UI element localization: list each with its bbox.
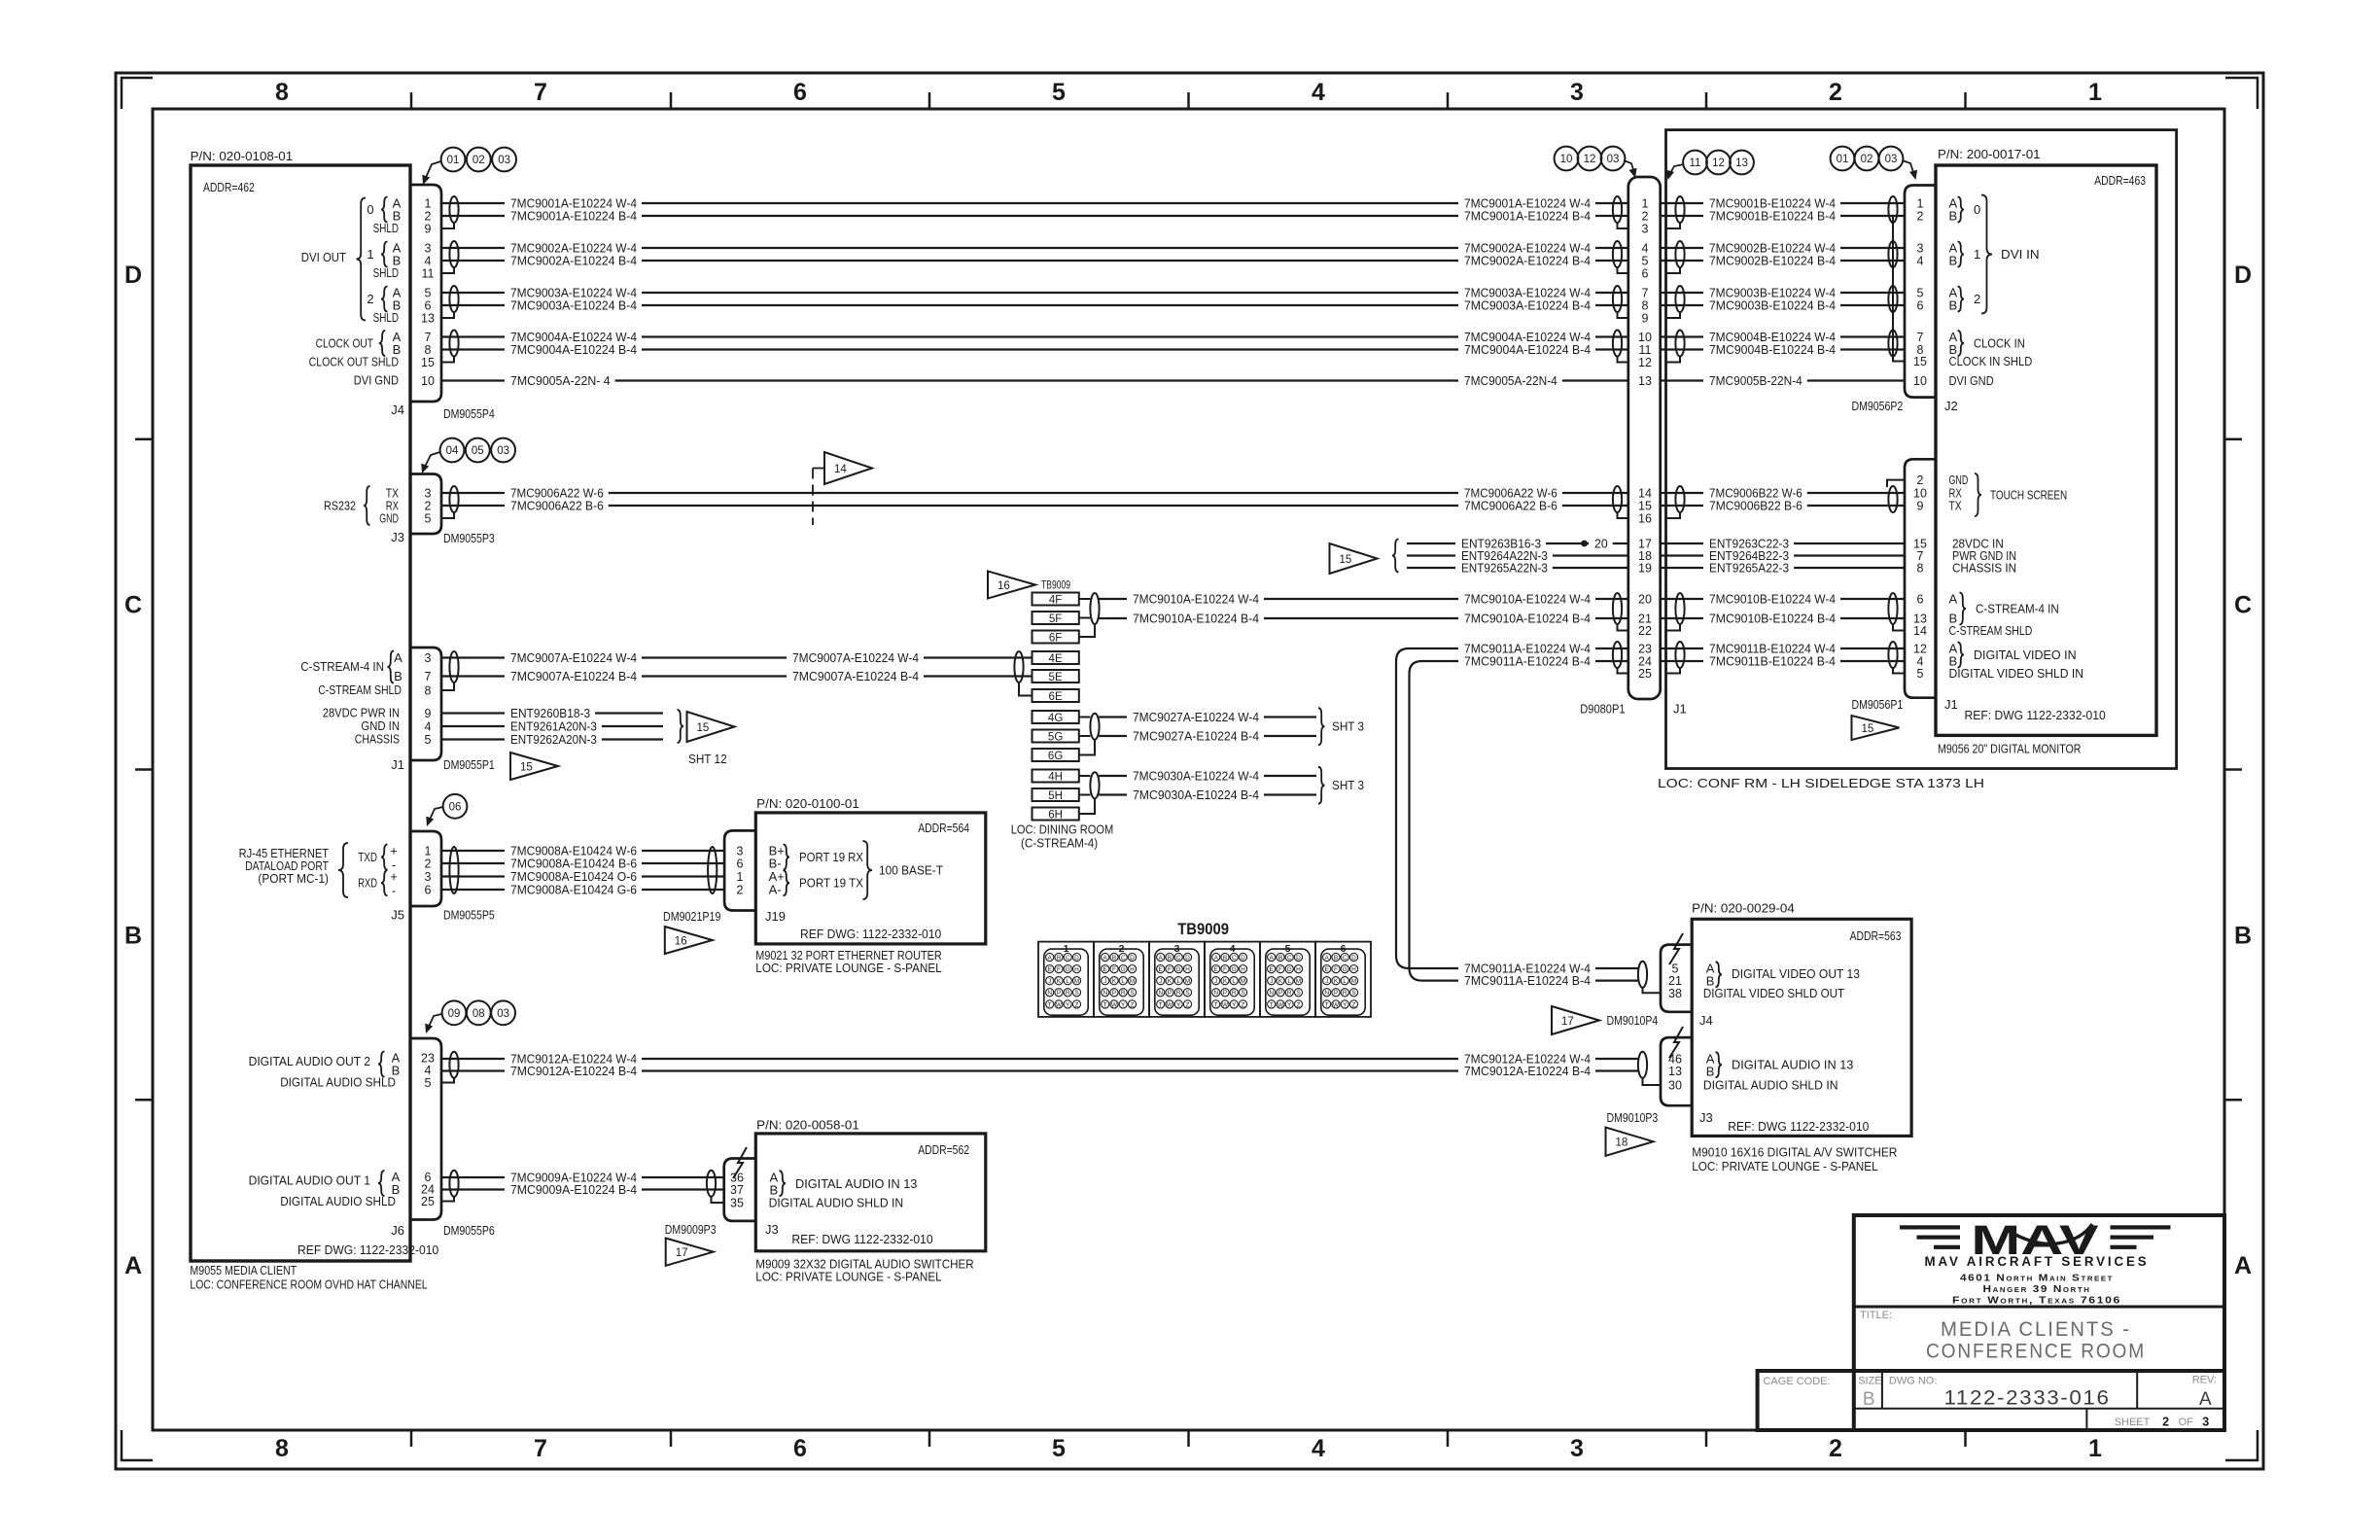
- svg-text:C-STREAM-4 IN: C-STREAM-4 IN: [300, 659, 384, 674]
- shield stub C-stream at D9080P1: [1618, 624, 1628, 631]
- svg-text:B: B: [1112, 955, 1116, 962]
- svg-text:2: 2: [1917, 473, 1924, 487]
- svg-text:ENT9262A20N-3: ENT9262A20N-3: [510, 732, 597, 747]
- svg-text:35: 35: [730, 1197, 744, 1210]
- svg-text:LOC: PRIVATE LOUNGE - S-PANEL: LOC: PRIVATE LOUNGE - S-PANEL: [1692, 1159, 1877, 1173]
- shield stub 6G: [1079, 740, 1095, 755]
- svg-text:6F: 6F: [1049, 632, 1062, 644]
- svg-text:7MC9010A-E10224 B-4: 7MC9010A-E10224 B-4: [1133, 612, 1259, 626]
- svg-text:G: G: [1232, 966, 1237, 973]
- wire 7MC9001B-E10224 B-4: [1661, 215, 1703, 217]
- svg-text:CLOCK IN: CLOCK IN: [1974, 336, 2025, 351]
- svg-text:5: 5: [425, 1076, 432, 1090]
- corner tick bottom-left: [122, 1430, 153, 1460]
- svg-text:C: C: [2234, 592, 2252, 619]
- svg-text:17: 17: [676, 1247, 688, 1259]
- svg-text:25: 25: [421, 1195, 435, 1208]
- TB9009 module 3: [1149, 942, 1205, 1017]
- svg-text:A: A: [1214, 955, 1219, 962]
- svg-text:DIGITAL AUDIO SHLD IN: DIGITAL AUDIO SHLD IN: [1703, 1078, 1838, 1093]
- svg-text:8: 8: [1917, 562, 1924, 576]
- svg-text:7MC9012A-E10224 B-4: 7MC9012A-E10224 B-4: [1464, 1064, 1591, 1078]
- svg-text:DIGITAL AUDIO IN 13: DIGITAL AUDIO IN 13: [1732, 1058, 1853, 1072]
- wire ENT9264B22-3: [1661, 554, 1703, 556]
- sheet-ref triangle 14 with dashed tap: [824, 452, 872, 484]
- svg-text:C: C: [1121, 955, 1126, 962]
- svg-text:A: A: [1270, 955, 1275, 962]
- reference circles 11 12 13 for J1: [1683, 151, 1707, 175]
- wire 7MC9006A22 B-6: [441, 505, 505, 507]
- svg-text:P: P: [1057, 990, 1061, 997]
- svg-text:DM9009P3: DM9009P3: [665, 1222, 717, 1237]
- svg-text:J: J: [1159, 978, 1162, 985]
- svg-text:W: W: [1277, 1001, 1284, 1008]
- svg-text:B: B: [1949, 298, 1958, 313]
- svg-text:D: D: [124, 262, 142, 289]
- svg-text:P: P: [1168, 990, 1172, 997]
- reference circles 01 02 03 for DM9056P2: [1831, 147, 1855, 171]
- svg-text:MAV AIRCRAFT SERVICES: MAV AIRCRAFT SERVICES: [1925, 1253, 2150, 1269]
- svg-text:0: 0: [367, 202, 373, 217]
- svg-text:L: L: [1121, 978, 1125, 985]
- svg-text:M: M: [1185, 978, 1190, 985]
- wire ENT9264A22N-3: [1407, 554, 1455, 556]
- svg-text:7MC9002A-E10224 B-4: 7MC9002A-E10224 B-4: [510, 254, 637, 268]
- svg-text:DIGITAL AUDIO OUT 2: DIGITAL AUDIO OUT 2: [249, 1054, 370, 1068]
- svg-text:ENT9265A22-3: ENT9265A22-3: [1709, 561, 1789, 576]
- svg-text:SHLD: SHLD: [373, 310, 399, 325]
- sheet-ref triangle 15 below DM9056P1: [1852, 716, 1900, 740]
- shielded pair symbol audio2 at J6: [449, 1052, 458, 1078]
- shielded pair symbols: [449, 241, 458, 267]
- svg-text:G: G: [1343, 966, 1347, 973]
- svg-text:R: R: [1121, 990, 1126, 997]
- svg-text:REV:: REV:: [2192, 1375, 2217, 1386]
- wire 7MC9003B-E10224 B-4: [1661, 304, 1703, 306]
- svg-text:K: K: [1057, 978, 1062, 985]
- svg-text:TOUCH SCREEN: TOUCH SCREEN: [1990, 488, 2067, 503]
- svg-text:(C-STREAM-4): (C-STREAM-4): [1021, 836, 1098, 851]
- svg-text:7MC9005A-22N- 4: 7MC9005A-22N- 4: [510, 373, 611, 388]
- shielded pair symbol dig video left: [1613, 642, 1622, 668]
- svg-text:A: A: [2199, 1389, 2212, 1410]
- TB9009 module 6: [1315, 942, 1371, 1017]
- svg-text:03: 03: [497, 1008, 509, 1020]
- sheet-ref triangle 16 below DM9021P19: [665, 927, 713, 954]
- svg-text:DIGITAL VIDEO IN: DIGITAL VIDEO IN: [1974, 647, 2077, 662]
- svg-text:7MC9011A-E10224 B-4: 7MC9011A-E10224 B-4: [1464, 654, 1591, 669]
- svg-text:5: 5: [1917, 667, 1924, 681]
- svg-text:SHT 12: SHT 12: [688, 752, 727, 766]
- wire 7MC9002B-E10224 W-4: [1661, 247, 1703, 249]
- svg-text:M9056 20" DIGITAL MONITOR: M9056 20" DIGITAL MONITOR: [1938, 742, 2082, 756]
- svg-text:REF DWG: 1122-2332-010: REF DWG: 1122-2332-010: [297, 1242, 438, 1257]
- reference circles 10 12 03 for D9080P1: [1555, 147, 1579, 171]
- svg-text:6: 6: [793, 79, 807, 106]
- wire 7MC9009A-E10224 W-4: [441, 1176, 505, 1178]
- connector J6 (DM9055P6): [410, 1038, 441, 1220]
- svg-text:LOC: CONFERENCE ROOM OVHD HAT: LOC: CONFERENCE ROOM OVHD HAT CHANNEL: [190, 1277, 427, 1292]
- svg-text:37: 37: [730, 1183, 744, 1197]
- svg-text:2: 2: [1917, 210, 1924, 224]
- terminal 4G: [1032, 711, 1079, 723]
- svg-text:DM9055P4: DM9055P4: [443, 406, 495, 421]
- svg-text:15: 15: [1862, 723, 1874, 735]
- sheet-ref triangle 17 below DM9009P3: [666, 1239, 714, 1266]
- svg-text:C-STREAM-4 IN: C-STREAM-4 IN: [1976, 602, 2059, 616]
- svg-text:J1: J1: [391, 757, 404, 772]
- svg-text:E: E: [1103, 966, 1108, 973]
- svg-text:7MC9010A-E10224 W-4: 7MC9010A-E10224 W-4: [1464, 592, 1591, 607]
- svg-text:1: 1: [425, 197, 432, 211]
- svg-text:C-STREAM SHLD: C-STREAM SHLD: [1949, 623, 2033, 638]
- svg-text:T: T: [1325, 1001, 1329, 1008]
- svg-text:15: 15: [421, 356, 435, 369]
- svg-text:Z: Z: [1075, 1001, 1079, 1008]
- svg-text:P/N: 200-0017-01: P/N: 200-0017-01: [1938, 147, 2041, 161]
- wire ENT9262A20N-3: [441, 738, 505, 740]
- reference circles 01 02 03 for J4: [441, 148, 466, 172]
- svg-text:D: D: [2234, 262, 2252, 289]
- terminal 5H wire stub: [1079, 794, 1091, 796]
- svg-text:D: D: [1074, 955, 1079, 962]
- svg-text:TXD: TXD: [358, 850, 377, 864]
- svg-text:12: 12: [1638, 356, 1652, 369]
- svg-text:6H: 6H: [1048, 809, 1063, 821]
- svg-text:DWG NO:: DWG NO:: [1889, 1376, 1938, 1387]
- svg-text:J3: J3: [391, 530, 404, 544]
- wire 7MC9006B22 W-6: [1661, 492, 1703, 494]
- shielded pair symbols C-stream right: [1675, 593, 1684, 624]
- shield stub at M9055: [441, 267, 454, 273]
- svg-text:16: 16: [675, 936, 687, 948]
- svg-text:20: 20: [1638, 593, 1652, 607]
- svg-text:E: E: [1214, 966, 1219, 973]
- svg-text:Hanger 39 North: Hanger 39 North: [1983, 1283, 2091, 1295]
- shield stub monitor dig video: [1893, 668, 1905, 674]
- svg-text:13: 13: [1735, 157, 1748, 169]
- svg-text:7MC9002A-E10224 B-4: 7MC9002A-E10224 B-4: [1464, 254, 1591, 268]
- shielded pair symbol 9030: [1090, 772, 1099, 798]
- svg-text:L: L: [1343, 978, 1347, 985]
- M9009 audio switcher box: [755, 1134, 986, 1251]
- wire 7MC9006A22 W-6: [441, 492, 505, 494]
- terminal 6F: [1032, 631, 1079, 644]
- svg-text:1: 1: [1974, 247, 1980, 262]
- shielded pair symbols C-stream left: [1090, 593, 1099, 624]
- svg-text:5: 5: [425, 287, 432, 300]
- svg-text:DM9056P2: DM9056P2: [1852, 399, 1904, 413]
- svg-text:B: B: [1863, 1389, 1875, 1410]
- shielded pair symbol at M9010 J4: [1638, 962, 1647, 988]
- svg-text:1: 1: [367, 247, 373, 262]
- svg-text:4: 4: [425, 720, 432, 734]
- svg-text:TX: TX: [1949, 499, 1962, 513]
- svg-text:A: A: [1048, 955, 1053, 962]
- svg-text:M: M: [1074, 978, 1079, 985]
- svg-text:03: 03: [497, 445, 509, 457]
- svg-text:5: 5: [425, 733, 432, 747]
- svg-text:7MC9003B-E10224 B-4: 7MC9003B-E10224 B-4: [1709, 298, 1836, 313]
- svg-text:10: 10: [421, 374, 435, 388]
- shield break symbol M9010 J3: [1669, 1027, 1683, 1058]
- svg-text:DM9010P4: DM9010P4: [1607, 1013, 1659, 1028]
- svg-text:REF: DWG 1122-2332-010: REF: DWG 1122-2332-010: [1728, 1119, 1869, 1134]
- svg-text:4H: 4H: [1048, 771, 1063, 783]
- svg-text:1: 1: [737, 870, 744, 884]
- svg-text:DVI GND: DVI GND: [1949, 373, 1994, 388]
- terminal 5G wire stub: [1079, 735, 1091, 737]
- svg-text:REF: DWG 1122-2332-010: REF: DWG 1122-2332-010: [791, 1232, 932, 1246]
- wire 7MC9011B-E10224 W-4: [1661, 647, 1703, 649]
- shielded pair symbol 9027: [1090, 714, 1099, 740]
- svg-text:R: R: [1232, 990, 1237, 997]
- svg-text:(PORT MC-1): (PORT MC-1): [258, 871, 329, 886]
- svg-text:RS232: RS232: [324, 499, 356, 513]
- svg-text:1: 1: [2088, 1435, 2102, 1462]
- svg-text:2: 2: [425, 500, 432, 513]
- svg-text:J19: J19: [765, 909, 786, 924]
- wire 7MC9004A-E10224 W-4: [441, 335, 505, 337]
- svg-text:H: H: [1351, 966, 1356, 973]
- svg-text:L: L: [1176, 978, 1180, 985]
- svg-text:DM9055P6: DM9055P6: [443, 1223, 495, 1238]
- svg-text:6: 6: [1917, 299, 1924, 313]
- svg-text:CLOCK OUT SHLD: CLOCK OUT SHLD: [309, 355, 399, 369]
- corner tick bottom-right: [2225, 1430, 2257, 1460]
- wire 7MC9003A-E10224 W-4: [441, 292, 505, 294]
- svg-text:10: 10: [1913, 374, 1927, 388]
- svg-text:P: P: [1112, 990, 1116, 997]
- svg-text:SIZE: SIZE: [1858, 1376, 1881, 1387]
- svg-text:5: 5: [1917, 287, 1924, 300]
- connector J4 (DM9055P4): [410, 185, 441, 402]
- svg-text:B: B: [394, 669, 402, 683]
- corner tick top-left: [122, 78, 153, 109]
- svg-text:4E: 4E: [1049, 653, 1063, 665]
- svg-text:LOC: PRIVATE LOUNGE - S-PANEL: LOC: PRIVATE LOUNGE - S-PANEL: [755, 1270, 941, 1284]
- shield stub at M9055: [441, 312, 454, 318]
- terminal 4E: [1032, 651, 1079, 664]
- svg-text:17: 17: [1561, 1016, 1574, 1028]
- svg-text:7MC9003A-E10224 B-4: 7MC9003A-E10224 B-4: [510, 298, 637, 313]
- shield stub at M9009: [712, 1197, 724, 1203]
- svg-text:Z: Z: [1242, 1001, 1245, 1008]
- svg-text:13: 13: [1638, 374, 1652, 388]
- svg-text:25: 25: [1638, 667, 1652, 681]
- svg-text:7MC9009A-E10224 B-4: 7MC9009A-E10224 B-4: [510, 1182, 637, 1197]
- MAV logo wing bars left: [1900, 1225, 1960, 1229]
- shield stub 9007 at M9055: [441, 682, 454, 690]
- terminal 6E: [1032, 689, 1079, 702]
- svg-text:DIGITAL VIDEO OUT 13: DIGITAL VIDEO OUT 13: [1732, 966, 1860, 981]
- svg-text:2: 2: [425, 857, 432, 871]
- svg-text:T: T: [1103, 1001, 1107, 1008]
- svg-text:4: 4: [1312, 79, 1325, 106]
- svg-text:4F: 4F: [1049, 594, 1062, 606]
- svg-text:8: 8: [275, 79, 289, 106]
- svg-text:B: B: [1168, 955, 1172, 962]
- svg-text:7MC9012A-E10224 B-4: 7MC9012A-E10224 B-4: [510, 1064, 637, 1078]
- svg-text:06: 06: [449, 802, 462, 814]
- svg-text:A: A: [1103, 955, 1108, 962]
- svg-text:15: 15: [1913, 355, 1927, 368]
- svg-text:2: 2: [425, 210, 432, 224]
- svg-text:7MC9010B-E10224 B-4: 7MC9010B-E10224 B-4: [1709, 612, 1836, 626]
- svg-text:H: H: [1130, 966, 1135, 973]
- svg-text:S: S: [1351, 990, 1356, 997]
- svg-text:Y: Y: [1343, 1001, 1347, 1008]
- svg-text:J: J: [1214, 978, 1217, 985]
- svg-text:+: +: [390, 844, 398, 858]
- svg-text:T: T: [1270, 1001, 1274, 1008]
- svg-text:02: 02: [472, 155, 485, 166]
- power wires brace: [1392, 540, 1399, 573]
- svg-text:W: W: [1222, 1001, 1229, 1008]
- shield stub at D9080P1 left: [1618, 357, 1628, 363]
- sheet-ref triangle 15 at DM9055P1: [510, 752, 558, 780]
- wire 7MC9002A-E10224 W-4: [441, 247, 505, 249]
- svg-text:P: P: [1223, 990, 1227, 997]
- terminal 6H: [1032, 808, 1079, 821]
- wire 7MC9008A-E10424 G-6: [441, 889, 505, 891]
- TB9009 module 1: [1038, 942, 1094, 1017]
- svg-text:LOC: PRIVATE LOUNGE - S-PANEL: LOC: PRIVATE LOUNGE - S-PANEL: [755, 961, 941, 975]
- connector J1 (DM9055P1): [410, 647, 441, 760]
- svg-text:DIGITAL AUDIO SHLD: DIGITAL AUDIO SHLD: [280, 1075, 396, 1090]
- svg-text:4: 4: [425, 255, 432, 268]
- svg-text:W: W: [1167, 1001, 1173, 1008]
- svg-text:Y: Y: [1121, 1001, 1126, 1008]
- wire 7MC9027A-E10224 W-4: [1099, 716, 1127, 717]
- svg-text:J3: J3: [765, 1222, 779, 1237]
- wire 7MC9010A-E10224 W-4: [1099, 598, 1127, 600]
- svg-text:4: 4: [1642, 242, 1649, 256]
- svg-text:M: M: [1296, 978, 1301, 985]
- svg-text:TB9009: TB9009: [1041, 580, 1070, 592]
- svg-text:14: 14: [1638, 487, 1652, 501]
- svg-text:7MC9010A-E10224 W-4: 7MC9010A-E10224 W-4: [1133, 592, 1259, 607]
- svg-text:7MC9027A-E10224 W-4: 7MC9027A-E10224 W-4: [1133, 710, 1259, 724]
- svg-text:F: F: [1168, 966, 1172, 973]
- svg-text:7: 7: [1642, 287, 1649, 300]
- svg-text:A: A: [1325, 955, 1330, 962]
- svg-text:0: 0: [1974, 202, 1980, 217]
- svg-text:J: J: [1325, 978, 1328, 985]
- shield oval at J5: [449, 847, 458, 893]
- svg-text:ADDR=563: ADDR=563: [1850, 928, 1902, 943]
- svg-text:03: 03: [1885, 154, 1898, 165]
- svg-text:C: C: [1176, 955, 1181, 962]
- svg-text:1: 1: [1917, 197, 1924, 211]
- terminal 4H: [1032, 770, 1079, 783]
- shield stub at M9055: [441, 223, 454, 228]
- svg-text:F: F: [1057, 966, 1061, 973]
- shielded pair symbol audio1 at J6: [449, 1171, 458, 1197]
- monitor J2 shield chain to pin 15: [1893, 217, 1905, 362]
- connector J5 (DM9055P5): [410, 831, 441, 906]
- svg-text:7MC9001B-E10224 B-4: 7MC9001B-E10224 B-4: [1709, 209, 1836, 224]
- svg-text:H: H: [1074, 966, 1079, 973]
- svg-text:K: K: [1334, 978, 1339, 985]
- svg-text:13: 13: [1668, 1065, 1682, 1078]
- svg-text:Z: Z: [1352, 1001, 1356, 1008]
- leader to DM9056P2: [1903, 160, 1915, 175]
- svg-text:5: 5: [1642, 255, 1649, 268]
- shielded pair symbols dig video right: [1675, 642, 1684, 668]
- wire 7MC9005A-22N-4 (DVI GND): [441, 379, 505, 381]
- svg-text:ADDR=564: ADDR=564: [918, 821, 969, 835]
- svg-text:OF: OF: [2179, 1417, 2194, 1428]
- reference circles 04 05 03 for J3: [440, 438, 465, 463]
- svg-text:4: 4: [425, 1064, 432, 1077]
- svg-text:7MC9001A-E10224 B-4: 7MC9001A-E10224 B-4: [510, 209, 637, 224]
- svg-text:L: L: [1066, 978, 1069, 985]
- svg-text:3: 3: [2202, 1416, 2209, 1429]
- svg-text:7MC9002B-E10224 B-4: 7MC9002B-E10224 B-4: [1709, 254, 1836, 268]
- svg-text:8: 8: [1642, 299, 1649, 313]
- svg-text:7MC9011A-E10224 B-4: 7MC9011A-E10224 B-4: [1464, 973, 1591, 988]
- MAV logo swoosh: [2007, 1224, 2092, 1243]
- svg-text:J1: J1: [1944, 697, 1958, 712]
- svg-text:S: S: [1130, 990, 1135, 997]
- power wires closing brace: [678, 710, 684, 743]
- svg-text:G: G: [1287, 966, 1292, 973]
- shield stub 6H: [1079, 799, 1095, 815]
- svg-text:Y: Y: [1232, 1001, 1237, 1008]
- svg-text:DM9055P1: DM9055P1: [443, 757, 495, 772]
- svg-text:W: W: [1333, 1001, 1340, 1008]
- svg-text:1: 1: [2088, 79, 2102, 106]
- wire ENT9265A22N-3: [1407, 567, 1455, 569]
- svg-text:J5: J5: [391, 908, 404, 923]
- wire 7MC9006B22 B-6: [1661, 505, 1703, 507]
- svg-text:14: 14: [834, 464, 847, 475]
- svg-text:SHT 3: SHT 3: [1332, 778, 1364, 792]
- shielded pair symbol at M9009: [707, 1171, 716, 1197]
- wire 7MC9009A-E10224 B-4: [441, 1188, 505, 1190]
- svg-text:4601 North Main Street: 4601 North Main Street: [1960, 1273, 2114, 1284]
- svg-text:A-: A-: [769, 883, 782, 897]
- svg-text:7MC9027A-E10224 B-4: 7MC9027A-E10224 B-4: [1133, 729, 1259, 744]
- svg-text:6: 6: [1642, 267, 1649, 281]
- svg-text:F: F: [1223, 966, 1227, 973]
- svg-text:8: 8: [425, 684, 432, 698]
- svg-text:D: D: [1130, 955, 1135, 962]
- svg-text:CHASSIS IN: CHASSIS IN: [1952, 561, 2016, 576]
- shielded pair symbols: [449, 286, 458, 312]
- SHT 3 brace for 9027: [1318, 708, 1325, 745]
- svg-text:30: 30: [1668, 1079, 1682, 1093]
- svg-text:A: A: [124, 1252, 142, 1279]
- svg-text:ADDR=463: ADDR=463: [2094, 173, 2146, 188]
- shielded pair symbols: [449, 196, 458, 223]
- svg-text:7: 7: [534, 79, 547, 106]
- terminal 5F wire stub: [1079, 617, 1091, 619]
- svg-text:SHLD: SHLD: [373, 265, 399, 280]
- wire ENT9261A20N-3: [441, 725, 505, 727]
- M9021 ethernet router box: [755, 813, 986, 944]
- terminal 4F: [1032, 593, 1079, 606]
- DVI IN group brace and label: [1981, 195, 1992, 314]
- svg-text:PORT 19 RX: PORT 19 RX: [799, 850, 863, 864]
- wire ENT9265A22-3: [1661, 567, 1703, 569]
- svg-text:CLOCK OUT: CLOCK OUT: [316, 336, 373, 351]
- svg-text:D: D: [1351, 955, 1356, 962]
- svg-text:S: S: [1074, 990, 1079, 997]
- connector J3 (DM9009P3): [724, 1159, 756, 1221]
- shielded pair symbols touch screen: [1675, 486, 1684, 512]
